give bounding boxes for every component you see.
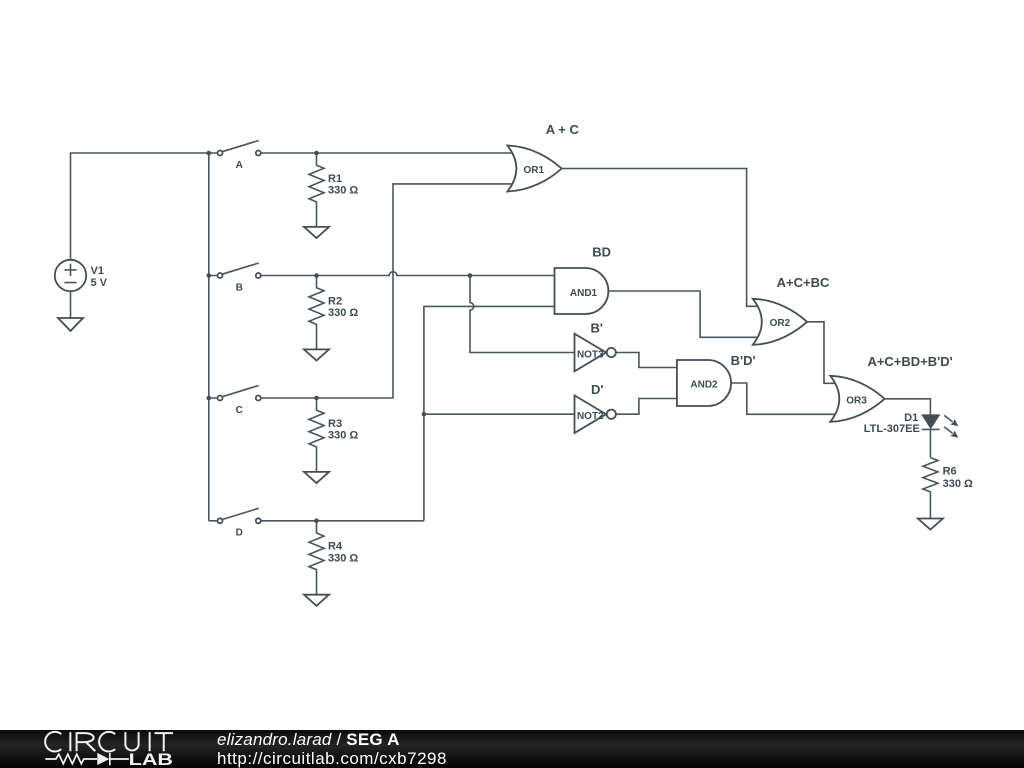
node B to NOT3 junction [468,273,473,278]
svg-text:NOT2: NOT2 [577,411,604,422]
or-gate OR2 [753,299,807,345]
voltage source V1 [55,260,86,318]
svg-text:A+C+BC: A+C+BC [777,275,830,290]
svg-text:BD: BD [592,245,611,260]
svg-text:A + C: A + C [546,122,580,137]
and-gate AND1 [555,268,609,314]
resistor R2 [309,276,324,350]
switch C [218,386,261,401]
label A+C+BC [777,275,830,290]
logo resistor-diode glyph [45,753,129,765]
ground below R6 [918,519,943,530]
and-gate AND2 [677,360,731,406]
wire AND1 output to OR2 bottom input [608,291,757,337]
label R4 330ohm [328,541,358,565]
ground below R1 [304,227,329,238]
wire B-signal drop to NOT3 input (hop over AND1 wire) [470,276,575,353]
switch B [218,263,261,278]
wire NOT3 output to AND2 top input [616,353,677,368]
wire LED to R6 [929,429,931,457]
label D1 LTL-307EE [864,412,920,435]
svg-text:R2: R2 [328,295,342,307]
label R6 330ohm [943,465,973,490]
wire branch to NOT2 input [424,413,575,415]
ground below R4 [304,595,329,606]
svg-text:B'D': B'D' [731,353,756,368]
or-gate OR1 [507,146,561,192]
node bus-C junction [207,396,212,401]
svg-text:D': D' [591,382,603,397]
label A [236,160,243,171]
switch A [218,141,261,156]
wire AND2 output to OR3 bottom input [731,383,836,414]
svg-text:330 Ω: 330 Ω [328,430,358,442]
svg-text:R1: R1 [328,173,342,185]
label D' [591,382,603,397]
not-gate NOT3 [575,334,616,372]
label B' [591,320,603,335]
node R2 top junction [314,273,319,278]
node R1 top junction [314,151,319,156]
svg-text:NOT3: NOT3 [577,349,604,360]
label B'D' [731,353,756,368]
wire row D switch to corner [209,520,424,522]
svg-text:OR1: OR1 [524,165,545,176]
svg-text:B: B [236,282,243,293]
wire OR1 output to OR2 top input [562,169,758,307]
label BD [592,245,611,260]
svg-text:C: C [236,405,243,416]
svg-text:LTL-307EE: LTL-307EE [864,423,920,435]
node bus-B junction [207,273,212,278]
svg-text:330 Ω: 330 Ω [328,552,358,564]
svg-text:R6: R6 [943,465,957,477]
wire row B switch to AND1 input (hop over C riser) [209,272,556,276]
ground below V1 [58,318,83,331]
LED D1 [922,415,959,438]
CircuitLab logo [0,730,260,768]
wire top rail from V1 to bus [71,153,209,260]
resistor R6 [923,458,938,519]
svg-text:V1: V1 [91,265,104,277]
footer bar [0,730,1024,768]
or-gate OR3 [830,376,884,422]
node bus-A junction [207,151,212,156]
svg-text:LAB: LAB [129,751,173,768]
svg-text:A: A [236,160,243,171]
resistor R1 [309,153,324,227]
not-gate NOT2 [575,395,616,433]
label D [236,528,243,539]
switch D [218,508,261,523]
svg-text:330 Ω: 330 Ω [328,307,358,319]
svg-text:330 Ω: 330 Ω [328,185,358,197]
resistor R3 [309,398,324,472]
svg-text:OR3: OR3 [846,395,867,406]
svg-text:R3: R3 [328,418,342,430]
label R2 330ohm [328,295,358,319]
label B [236,282,243,293]
label R3 330ohm [328,418,358,442]
svg-text:AND1: AND1 [570,288,598,299]
svg-text:A+C+BD+B'D': A+C+BD+B'D' [867,354,952,369]
wire OR3 output to LED D1 [885,399,931,415]
svg-text:B': B' [591,320,603,335]
svg-text:330 Ω: 330 Ω [943,478,973,490]
wire bus vertical [208,153,210,521]
label A + C [546,122,580,137]
node R3 top junction [314,396,319,401]
label A+C+BD+B'D' [867,354,952,369]
label R1 330ohm [328,173,358,197]
svg-text:R4: R4 [328,541,343,553]
wire row A switch to R1 to OR1 input [209,152,513,154]
footer author / title [217,730,447,768]
node R4 top junction [314,519,319,524]
wire row C switch then riser to OR1 bottom input [209,184,513,398]
svg-text:D: D [236,528,243,539]
label V1 5 V [91,265,108,289]
svg-text:AND2: AND2 [690,380,718,391]
wire D-signal riser to AND1 bottom input (straight through B' hop) [424,306,556,520]
wire NOT2 output to AND2 bottom input [616,399,677,415]
resistor R4 [309,521,324,595]
svg-text:5 V: 5 V [91,277,108,289]
wire OR2 output to OR3 top input [807,322,836,384]
node D' branch junction [422,412,427,417]
ground below R2 [304,349,329,360]
ground below R3 [304,472,329,483]
svg-text:OR2: OR2 [770,318,791,329]
label C [236,405,243,416]
